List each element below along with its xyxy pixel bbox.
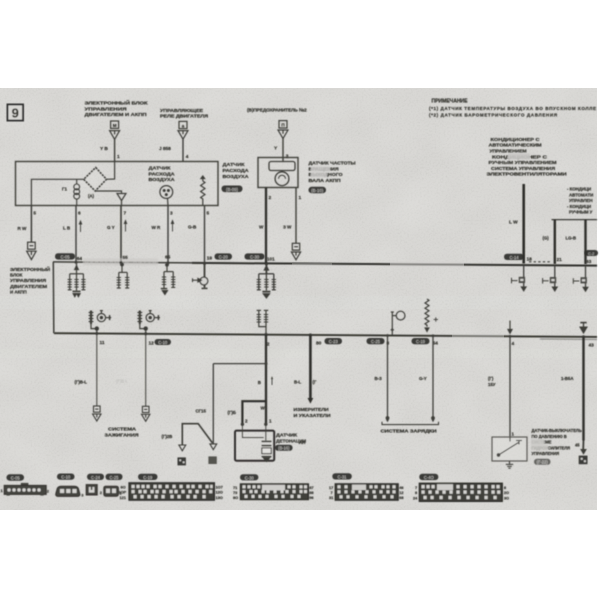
conditioner text block [487,137,567,177]
gauge wire thick [309,335,312,399]
svg-text:ДАТЧИК: ДАТЧИК [276,432,297,437]
svg-text:G-B: G-B [188,225,197,230]
svg-text:121: 121 [120,495,127,500]
air flow sensor box B-09 [16,162,219,206]
svg-text:11: 11 [100,340,105,346]
svg-text:21: 21 [557,257,563,263]
bottom badge C-30 [240,474,258,480]
ECU label text [85,99,148,118]
svg-text:ЗАЖИГАНИЯ: ЗАЖИГАНИЯ [105,432,139,437]
svg-text:C-24: C-24 [91,475,101,480]
down arrow onto bus2 at 510 [508,321,512,334]
zigzag resistor above bus2 [425,299,429,331]
svg-text:C-05: C-05 [60,254,70,259]
ECU connector M [110,121,120,139]
svg-text:(А): (А) [88,194,95,199]
svg-text:ВАЛА АКПП: ВАЛА АКПП [309,178,341,183]
svg-text:ДАТЧИК: ДАТЧИК [223,162,245,167]
bus1 pin labels [77,255,592,265]
svg-text:ИЗМЕРИТЕЛИ: ИЗМЕРИТЕЛИ [294,407,329,412]
svg-text:C-25: C-25 [371,339,381,344]
ECU2 label left [10,265,50,294]
sensor circle above bus2 [391,311,405,335]
badge B-10 [309,187,327,193]
engine control relay label [160,108,209,119]
ignition wire 12 [145,334,147,407]
svg-text:И АКПП: И АКПП [10,289,27,294]
mini connector below bus at 554 [543,265,557,291]
bottom badge C-40 [419,474,438,480]
svg-text:5: 5 [207,211,210,217]
svg-text:В-L: В-L [294,380,302,385]
bottom badge C-10 [57,474,75,480]
bottom badge C-19 [138,474,158,480]
svg-text:4: 4 [512,341,515,347]
wire pin1 to diamond [107,162,115,180]
bus 1 horizontal [53,262,597,266]
conditioner thick wire [522,184,525,264]
svg-text:(*2) ДАТЧИК БАРОМЕТРИЧЕСКОГО Д: (*2) ДАТЧИК БАРОМЕТРИЧЕСКОГО ДАВЛЕНИЯ [429,113,557,118]
wire ECU to air flow sensor box pin1 [114,139,116,161]
figure number 9 box [8,105,24,121]
svg-text:C-05: C-05 [11,476,21,481]
mini connector below bus at 585 [573,266,587,292]
knock sensor shield box [235,431,274,461]
svg-text:2: 2 [269,195,272,201]
svg-text:3: 3 [286,154,289,160]
svg-text:СИСТЕМА: СИСТЕМА [108,427,136,432]
knock sensor wire [265,335,267,425]
piezo element [262,441,272,461]
svg-text:19: 19 [207,256,213,262]
svg-text:55: 55 [123,255,129,261]
oil pressure switch box [492,437,527,461]
svg-text:M: M [113,123,117,128]
svg-text:П: П [281,123,284,128]
svg-text:РЕЛЕ ДВИГАТЕЛЯ: РЕЛЕ ДВИГАТЕЛЯ [160,114,209,119]
svg-text:ЭЛЕКТРОННЫЙ БЛОК: ЭЛЕКТРОННЫЙ БЛОК [85,99,148,106]
zigzag resistor [201,176,205,205]
svg-text:9: 9 [12,106,19,121]
shield termination arrow [210,444,217,450]
bus2 badge C-25 [367,338,385,344]
left bracket wire [52,262,55,333]
svg-text:W: W [259,225,264,230]
ground below oil switch [506,461,513,468]
connector pin1 speed sensor [291,243,300,259]
svg-text:УПРАВЛЕНИЕМ: УПРАВЛЕНИЕМ [490,149,527,154]
svg-text:(В-10): (В-10) [311,188,323,193]
hollow arrow to pin7 [117,194,126,201]
svg-text:1: 1 [117,154,120,160]
svg-text:C-30: C-30 [245,475,255,480]
bus 2 horizontal [54,333,597,337]
dashed optional link [529,261,552,263]
svg-text:АВТОМАТИЧЕСКИМ: АВТОМАТИЧЕСКИМ [489,143,542,148]
connector A [1,483,50,496]
speed sensor pins [265,188,267,264]
svg-text:РУЧНЫМ УПРАВЛЕНИЕМ: РУЧНЫМ УПРАВЛЕНИЕМ [489,160,557,165]
bus2 labels [100,340,595,348]
svg-text:ДАТЧИК-ВЫКЛЮЧАТЕЛЬ: ДАТЧИК-ВЫКЛЮЧАТЕЛЬ [532,428,582,433]
wire pin5 down [30,206,32,243]
svg-text:(Г): (Г) [488,376,494,381]
svg-text:ПО ДАВЛЕНИЮ В: ПО ДАВЛЕНИЮ В [532,434,567,439]
connector block G [329,484,404,500]
svg-text:УПРАВЛЕНИЯ: УПРАВЛЕНИЯ [85,106,128,111]
svg-text:C-14: C-14 [509,255,519,260]
svg-text:РАСХОДА: РАСХОДА [149,171,176,176]
svg-text:ДВИГАТЕЛЕМ: ДВИГАТЕЛЕМ [10,284,47,289]
shield pad [208,456,216,464]
shield wire horizontal [213,363,266,365]
svg-text:РАСХОДА: РАСХОДА [223,168,250,173]
svg-text:- КОНДИЦИ: - КОНДИЦИ [567,187,591,192]
svg-text:J 858: J 858 [159,146,171,152]
svg-text:C-20: C-20 [219,254,229,259]
connector D [100,486,123,496]
down arrow onto bus2 at 583 [580,323,587,333]
svg-text:C-23: C-23 [329,339,339,344]
oil pressure wire [509,336,511,437]
wire pin5 internal [31,179,83,205]
bus2 badge C-19 [412,338,430,344]
injector symbol B [137,311,160,335]
junction dots bus1 [75,261,269,265]
bus1 badge C-05 [55,253,75,259]
svg-text:3О: 3О [504,496,509,501]
injector symbol A [89,311,112,335]
mini connector below bus at 523 [512,265,526,291]
svg-text:(В)ПРЕДОХРАНИТЕЛЬ №2: (В)ПРЕДОХРАНИТЕЛЬ №2 [247,108,307,113]
connector block H [413,483,509,501]
svg-text:G-Y: G-Y [419,376,427,381]
connector B [56,486,85,497]
ghost stamp on bus [83,258,158,265]
pump symbol G4 [193,263,208,288]
right conditioner text [567,187,593,215]
wire pin6 down [75,206,77,263]
svg-text:В: В [258,380,261,385]
svg-text:(*1) ДАТЧИК ТЕМПЕРАТУРЫ ВОЗДУХ: (*1) ДАТЧИК ТЕМПЕРАТУРЫ ВОЗДУХА ВО ВПУСК… [429,106,596,111]
svg-text:C-30: C-30 [250,254,260,259]
svg-text:ЭЛЕКТРОВЕНТИЛЯТОРАМИ: ЭЛЕКТРОВЕНТИЛЯТОРАМИ [487,172,567,177]
svg-text:УПРАВЛЕНИЯ: УПРАВЛЕНИЯ [10,278,46,283]
wire pin7 down [120,206,122,263]
svg-text:101: 101 [267,256,275,262]
knock jumper bold [242,401,265,424]
svg-text:1-В5А: 1-В5А [561,376,574,381]
relay connector a [178,121,188,139]
ignition wire 11 [96,334,98,407]
svg-text:ЭЛЕКТРОННЫЙ: ЭЛЕКТРОННЫЙ [10,265,50,272]
svg-text:АВТОМАТИ: АВТОМАТИ [569,192,593,197]
oil switch label [532,428,582,456]
svg-text:ДВИГАТЕЛЕМ И АКПП: ДВИГАТЕЛЕМ И АКПП [85,112,148,117]
svg-text:З W: З W [283,225,292,230]
svg-text:64: 64 [77,256,83,262]
knock sensor label [276,432,306,443]
svg-text:W R: W R [152,225,162,230]
resistor network G1 [68,263,86,297]
svg-text:80: 80 [316,341,322,347]
svg-text:45: 45 [575,443,580,448]
wire pin5b down [204,206,206,264]
svg-text:1: 1 [299,195,302,201]
knock internal wires [242,424,263,437]
svg-text:C-19: C-19 [416,339,426,344]
svg-text:СИСТЕМА УПРАВЛЕНИЯ: СИСТЕМА УПРАВЛЕНИЯ [491,166,555,171]
svg-text:ДАТЧИК ЧАСТОТЫ: ДАТЧИК ЧАСТОТЫ [309,161,357,166]
ignition system label [105,427,139,438]
speed sensor box B-10 [258,158,298,188]
svg-text:АН: АН [299,440,305,445]
bottom badge C-31 [332,473,352,479]
bridge diamond [84,168,107,192]
box B-09 right label [223,162,250,179]
small arrows on wires [79,221,173,233]
svg-text:12: 12 [149,341,155,347]
wire pin3 down [167,206,169,263]
badge B-09 [222,186,243,193]
svg-text:УПРАВЛЕНИЯ: УПРАВЛЕНИЯ [532,451,560,456]
svg-text:(В-09): (В-09) [226,187,238,192]
svg-text:КОНДИЦИОНЕР С: КОНДИЦИОНЕР С [491,137,541,142]
svg-text:В-З: В-З [375,376,383,381]
wire fuse to speed sensor [282,139,284,162]
bus2 badge C-10 [155,339,172,345]
svg-text:15У: 15У [488,382,496,387]
fuse connector [278,121,288,139]
svg-text:(G): (G) [543,236,550,241]
bus1 badge C-14 [504,254,524,260]
svg-text:Y B: Y B [100,146,108,152]
svg-text:R W: R W [18,226,27,231]
svg-text:4: 4 [186,154,189,160]
scan background [0,88,597,510]
svg-text:G Y: G Y [107,225,115,230]
svg-text:УПРАВЛЕН: УПРАВЛЕН [569,198,592,203]
svg-text:БЛОК: БЛОК [10,273,23,278]
svg-text:СИСТЕМА ЗАРЯДКИ: СИСТЕМА ЗАРЯДКИ [381,429,437,434]
speed sensor label [309,161,357,183]
svg-text:3: 3 [170,211,173,217]
svg-text:ВОЗДУХА: ВОЗДУХА [149,177,176,182]
svg-text:РУЧНЫМ У: РУЧНЫМ У [569,210,593,215]
svg-text:C-25: C-25 [110,475,120,480]
resistor pair G2 [117,263,130,288]
svg-text:Г1: Г1 [62,187,68,192]
svg-text:ВОЗДУХА: ВОЗДУХА [223,174,250,179]
inner sensor label [149,166,176,183]
scan fade artifacts [292,261,504,339]
svg-text:(Г)В-L: (Г)В-L [75,380,88,385]
wire colour labels row [18,225,198,232]
svg-text:(В-16): (В-16) [278,446,290,451]
svg-text:13О: 13О [216,495,223,500]
svg-text:L W: L W [509,220,518,226]
pin numbers under box [33,211,209,217]
svg-text:И УКАЗАТЕЛИ: И УКАЗАТЕЛИ [294,413,331,418]
resistor network G5 [257,264,276,298]
shield wire down [212,364,214,444]
svg-text:(Г)Б: (Г)Б [228,410,236,415]
junction dots bus2 [95,332,585,338]
svg-text:C-2: C-2 [588,251,595,256]
connector C [86,485,97,495]
bus1 badge right edge [585,250,599,256]
coil G1 [62,179,80,205]
svg-text:(Г-22): (Г-22) [537,460,548,465]
svg-text:ДАТЧИК: ДАТЧИК [149,166,171,171]
bus1 badge C-30 [245,253,265,259]
motor circle [275,172,289,186]
svg-text:- КОНДИЦИ: - КОНДИЦИ [567,204,591,209]
resistor pair above bus2 [257,310,269,334]
note text [429,99,596,118]
svg-text:7: 7 [124,211,127,217]
charge system arrows [387,336,389,417]
resistor pair G3 [161,263,176,294]
connector pin5 bottom [27,242,36,259]
svg-text:C-31: C-31 [338,474,348,479]
svg-text:2О: 2О [504,490,509,495]
connector block E [119,483,223,500]
svg-text:7: 7 [415,485,417,490]
svg-text:СГ15: СГ15 [196,409,207,414]
sensor circle [160,186,173,206]
power wire right [582,337,584,441]
svg-text:5: 5 [33,211,36,217]
bottom badge C-05 [7,474,25,480]
svg-text:(Г: (Г [313,380,317,385]
svg-text:2: 2 [267,341,270,347]
svg-text:C-10: C-10 [61,475,71,480]
svg-text:ПРИМЕЧАНИЕ: ПРИМЕЧАНИЕ [432,99,469,105]
right conditioner bracket [552,219,598,221]
bus2 badge C-23 [325,338,343,344]
svg-text:43: 43 [589,342,595,348]
wire diamond to arrow [95,191,121,193]
plus tick on charge wire [434,317,438,321]
connector block F [233,484,314,500]
svg-text:C-4О: C-4О [424,475,435,480]
svg-text:6: 6 [78,211,81,217]
svg-text:C-10: C-10 [158,340,168,345]
wire relay to box pin4 [182,139,184,161]
ground jumper [182,424,212,445]
bottom badges C-24 C-25 [87,474,104,480]
svg-text:8О: 8О [233,495,238,500]
svg-text:L B: L B [63,226,71,231]
svg-text:C-19: C-19 [143,475,153,480]
svg-text:(Г)В L: (Г)В L [116,379,128,384]
svg-text:(Г)2В: (Г)2В [162,434,173,439]
svg-text:65: 65 [165,255,171,261]
svg-text:LG-B: LG-B [566,236,577,241]
bus1 badge C-20 [215,253,233,259]
svg-text:УПРАВЛЯЮЩЕЕ: УПРАВЛЯЮЩЕЕ [160,108,203,113]
svg-text:63: 63 [586,259,592,265]
